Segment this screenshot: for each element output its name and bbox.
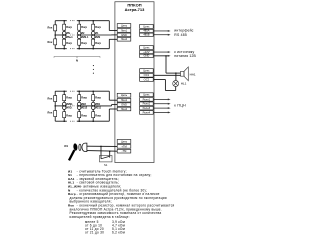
svg-text:...: ... (70, 36, 72, 39)
svg-text:...: ... (70, 103, 72, 106)
detector И2N-1 (77, 35, 81, 39)
wire rail3 to terminal row 3 (108, 109, 110, 121)
svg-text:ИВ1: ИВ1 (95, 103, 101, 106)
wire +12V (154, 51, 168, 53)
detector И2 (77, 31, 81, 35)
svg-text:GND: GND (143, 54, 149, 58)
wire реле 3 к ПЦН (154, 107, 168, 109)
resistor Rогр (upper, col 1) (63, 95, 66, 101)
svg-text:+12V: +12V (143, 50, 149, 54)
svg-text:Rогр: Rогр (95, 97, 101, 100)
speaker HA1 (звуковой оповещатель) (181, 71, 185, 76)
svg-text:Rок: Rок (48, 26, 53, 30)
terminal block XT4 (RS-485): Цепь / 485A / 485B (140, 25, 154, 29)
resistor Rогр (lower, col 1) (63, 39, 66, 45)
svg-text:Rок: Rок (48, 40, 53, 44)
svg-text:И211: И211 (95, 107, 101, 110)
resistor Rогр (lower, col 3) (92, 39, 95, 45)
svg-text:Лин1: Лин1 (121, 28, 128, 32)
detector И1 (91, 31, 95, 35)
wire lamp branch down (175, 73, 177, 81)
detector И2N (91, 35, 95, 39)
svg-text:Цепь: Цепь (143, 24, 150, 28)
svg-text:Rогр: Rогр (81, 115, 87, 118)
wire RS-485 B (154, 34, 168, 36)
svg-text:Реле1: Реле1 (143, 97, 151, 101)
switch S1 box (100, 156, 113, 162)
brace N under ladder 1 (54, 56, 100, 58)
wire rail1 to terminal row 1 (108, 91, 110, 100)
detector column 1 (63, 91, 65, 121)
resistor Rогр (upper, col 3) (92, 24, 95, 30)
svg-text:Лин2: Лин2 (121, 107, 128, 111)
svg-text:Rогр: Rогр (66, 26, 72, 29)
wire реле 2 к ПЦН (154, 103, 168, 105)
wire rail1 to terminal row 1 (108, 21, 110, 31)
svg-text:...: ... (70, 32, 72, 35)
switch S1 contact blade (101, 156, 109, 158)
terminal block XT6 (выходы ОС): Цепь / ОС1 / ОС2 (140, 69, 154, 73)
wire left end-of-line column (54, 21, 56, 49)
terminal block XT1 (шлейф 1): Цепь / Лин1 / GND / Лин2 (117, 24, 131, 28)
wire lamp bottom (175, 87, 177, 91)
svg-text:Rогр: Rогр (66, 97, 72, 100)
svg-text:Цепь: Цепь (121, 93, 128, 97)
resistor Rок (upper) (54, 96, 57, 102)
svg-text:Лин1: Лин1 (121, 98, 128, 102)
wire rail 2 (middle) (55, 34, 67, 36)
resistor Rогр (lower, col 2) (78, 39, 81, 45)
svg-text:RS 485: RS 485 (174, 33, 187, 37)
svg-text:Реле2: Реле2 (143, 102, 151, 106)
resistor Rок (lower) (54, 39, 57, 45)
svg-text:HA1: HA1 (190, 73, 196, 77)
wire rail 1 (top) (55, 90, 67, 92)
svg-text:Астра-713: Астра-713 (125, 7, 145, 12)
junction on GND wire (165, 55, 167, 57)
terminal block XT5 (питание): Цепь / +12V / GND (140, 46, 154, 50)
svg-text:Rогр: Rогр (95, 115, 101, 118)
wire rail 3 (bottom) (55, 48, 67, 50)
wire rail3 to terminal row 3 (108, 39, 110, 48)
svg-text:Rок: Rок (48, 111, 53, 115)
wire реле 4 к ПЦН (154, 111, 168, 113)
wire to switch S1 right (109, 151, 111, 157)
wire to switch S1 left (100, 146, 102, 158)
svg-text:-ТМ: -ТМ (122, 149, 127, 153)
svg-text:ОС2: ОС2 (144, 77, 150, 81)
resistor Rогр (lower, col 3) (92, 112, 95, 118)
junction on +ТМ wire (100, 146, 102, 148)
resistor Rогр (lower, col 1) (63, 112, 66, 118)
svg-text:S1: S1 (104, 163, 108, 167)
svg-text:N: N (76, 59, 78, 63)
wire ОС1 to speaker (154, 74, 181, 76)
svg-text:Rогр: Rогр (95, 26, 101, 29)
wire left end-of-line column (54, 91, 56, 121)
junction at lamp branch (175, 72, 177, 74)
wire GND branch down to annunciators (165, 56, 167, 73)
svg-text:И2N-1: И2N-1 (81, 36, 89, 39)
svg-text:Rок: Rок (48, 96, 53, 100)
svg-text:извещателей приведена в таблиц: извещателей приведена в таблице: (70, 215, 130, 219)
svg-text:Цепь: Цепь (143, 46, 150, 50)
terminal block XT3 (считыватель): Цепь / +ТМ / -ТМ (117, 140, 131, 144)
svg-text:И2N: И2N (95, 36, 100, 39)
svg-text:Цепь: Цепь (143, 93, 150, 97)
svg-text:питания 12В: питания 12В (174, 54, 196, 58)
terminal block XT2 (шлейф 2): Цепь / Лин1 / GND / Лин2 (117, 93, 131, 97)
svg-text:Цепь: Цепь (121, 139, 128, 143)
svg-text:Rогр: Rогр (81, 42, 87, 45)
junction on middle rail at Rок column (54, 105, 56, 107)
svg-text:Rогр: Rогр (95, 42, 101, 45)
wire rail 2 (middle) (55, 105, 67, 107)
svg-text:485B: 485B (143, 33, 149, 37)
svg-text:И1: И1 (64, 144, 68, 148)
wire GND (154, 55, 168, 57)
svg-text:И212: И212 (81, 107, 88, 110)
resistor Rогр (upper, col 1) (63, 24, 66, 30)
resistor Rок (upper) (54, 25, 57, 31)
svg-text:Rогр: Rогр (81, 26, 87, 29)
junction on middle rail at Rок column (54, 34, 56, 36)
svg-text:...: ... (70, 107, 72, 110)
detector И211 (91, 106, 95, 110)
detector column 3 (92, 91, 94, 121)
terminal block XT7 (реле): Цепь / Реле1..Реле4 (140, 93, 154, 97)
svg-text:от 21 до 30: от 21 до 30 (85, 231, 104, 235)
wire реле 1 к ПЦН (154, 98, 168, 100)
resistor Rогр (upper, col 2) (78, 24, 81, 30)
resistor Rогр (upper, col 3) (92, 95, 95, 101)
detector column 1 (63, 21, 65, 49)
svg-text:Лин2: Лин2 (121, 37, 128, 41)
resistor Rогр (lower, col 2) (78, 112, 81, 118)
lamp HL1 (световой оповещатель) (173, 81, 179, 87)
detector column 3 (92, 21, 94, 49)
wire ОС2 to lamp (154, 79, 165, 81)
svg-text:Rогр: Rогр (66, 115, 72, 118)
svg-text:Цепь: Цепь (121, 24, 128, 28)
resistor Rогр (upper, col 2) (78, 95, 81, 101)
detector И2N1 (62, 102, 66, 106)
svg-text:GND: GND (121, 33, 127, 37)
detector ИN (62, 31, 66, 35)
svg-text:Цепь: Цепь (143, 69, 150, 73)
svg-text:+ТМ: +ТМ (121, 144, 126, 148)
wire rail 3 (bottom) (55, 120, 67, 122)
detector column 2 (78, 91, 80, 121)
detector column 2 (78, 21, 80, 49)
detector ИК2 (77, 102, 81, 106)
svg-text:485A: 485A (143, 29, 149, 33)
svg-text:к ПЦН: к ПЦН (174, 104, 186, 108)
detector ИВ1 (91, 102, 95, 106)
svg-text:Rогр: Rогр (81, 97, 87, 100)
svg-text:Реле3: Реле3 (143, 106, 151, 110)
detector ИПО (62, 106, 66, 110)
key И1 (ключ Touch Memory) (73, 143, 78, 151)
reader socket (считыватель) (79, 144, 81, 150)
svg-text:ОС1: ОС1 (144, 73, 150, 77)
wire reader to -ТМ (87, 150, 118, 153)
resistor Rок (lower) (54, 111, 57, 117)
device block U1 ППКОП Астра-713 (115, 2, 154, 163)
continuation dots between ladders (93, 65, 94, 66)
detector И212 (77, 106, 81, 110)
junction on -ТМ wire (109, 150, 111, 152)
detector ИN+1 (62, 35, 66, 39)
wire rail 1 (top) (55, 20, 67, 22)
wire RS-485 A (154, 30, 168, 32)
svg-text:Rогр: Rогр (66, 42, 72, 45)
svg-text:Реле4: Реле4 (143, 110, 151, 114)
svg-text:GND: GND (121, 103, 127, 107)
svg-text:ИК2: ИК2 (81, 103, 86, 106)
svg-text:HL1: HL1 (181, 82, 187, 86)
svg-text:6,2 кОм: 6,2 кОм (112, 231, 125, 235)
wire reader to +ТМ (87, 145, 118, 147)
